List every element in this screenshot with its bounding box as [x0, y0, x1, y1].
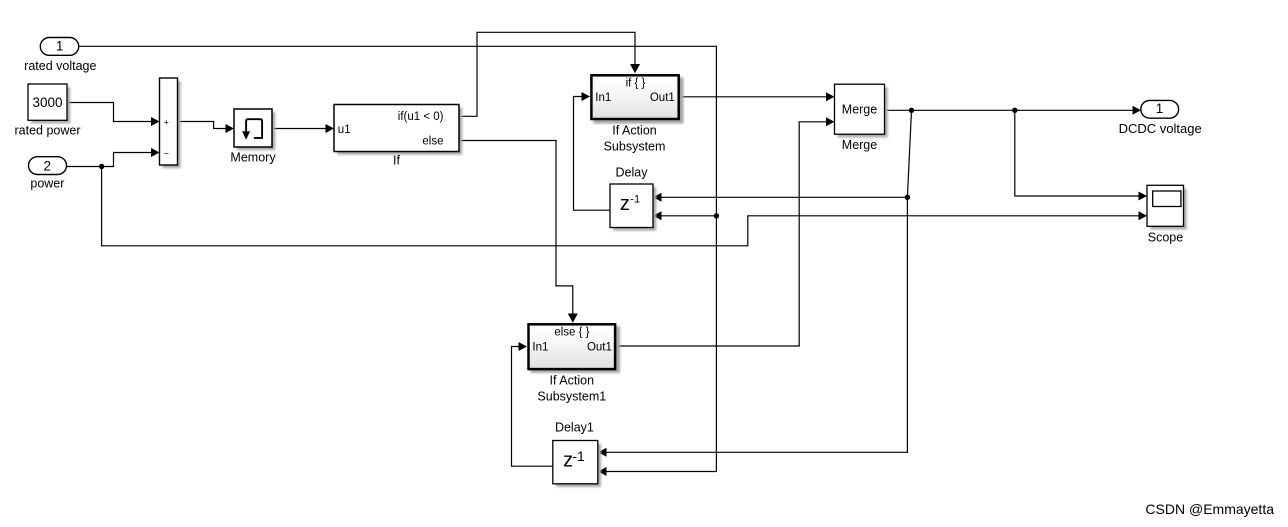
svg-text:Out1: Out1 [650, 92, 675, 104]
svg-text:Memory: Memory [230, 151, 276, 165]
svg-text:Out1: Out1 [587, 341, 612, 353]
svg-text:rated voltage: rated voltage [24, 59, 96, 73]
wire If output if(u1<0) to If Action Subsystem trigger [459, 32, 635, 116]
node junction merge output first [909, 108, 914, 113]
wire arrowhead into Delay1 in1 [598, 448, 607, 457]
node junction on rated-voltage line at Delay in2 branch [714, 213, 719, 218]
wire arrowhead into If u1 [326, 124, 335, 133]
svg-text:1: 1 [1156, 101, 1164, 116]
inport 1 rated voltage [24, 38, 96, 73]
svg-text:else: else [422, 136, 443, 148]
svg-text:If: If [393, 154, 400, 168]
if action subsystem1 [529, 324, 621, 403]
svg-text:If Action: If Action [612, 124, 657, 138]
svg-text:-1: -1 [630, 193, 640, 205]
constant block 3000 rated power [14, 84, 80, 137]
svg-text:If Action: If Action [550, 374, 595, 388]
wire rated voltage to Delay1 in2 (top long run, vertical x716) [79, 46, 717, 471]
wire power to Sum minus input [66, 153, 153, 167]
merge block [835, 84, 888, 152]
delay block [610, 165, 656, 230]
sum block [160, 78, 181, 168]
wire Sum output to Memory [178, 122, 228, 129]
svg-text:rated power: rated power [14, 123, 80, 137]
scope block [1147, 185, 1187, 244]
svg-text:In1: In1 [532, 341, 548, 353]
wire branch to Delay in2 [659, 215, 716, 217]
wire arrowhead into Delay1 in2 [598, 467, 607, 476]
wire If Action Subsystem1 Out1 to Merge in2 [617, 122, 829, 346]
svg-text:Merge: Merge [842, 103, 877, 117]
svg-text:else { }: else { } [554, 326, 589, 338]
wire arrowhead into If Action Subsystem top [630, 64, 640, 73]
memory block [230, 109, 276, 165]
svg-text:z: z [620, 193, 630, 215]
wire arrowhead into Delay in1 [653, 193, 662, 202]
wire arrowhead into If Action Subsystem1 top [568, 314, 578, 323]
wire arrowhead into Scope in1 [1139, 192, 1148, 201]
wire arrowhead into Sum plus [151, 117, 160, 126]
svg-text:Scope: Scope [1148, 231, 1183, 245]
wire merge branch down to Scope in1 [1015, 110, 1141, 196]
wire power branch to Scope in2 [102, 167, 1141, 246]
svg-text:Delay1: Delay1 [555, 420, 594, 434]
wire If output else to If Action Subsystem1 trigger [459, 141, 573, 315]
wire arrowhead into Memory [226, 124, 235, 133]
node junction on power line [99, 164, 104, 169]
wire Merge output to DCDC voltage outport [885, 109, 1135, 111]
svg-text:Subsystem: Subsystem [604, 140, 666, 154]
wire If Action Subsystem Out1 to Merge in1 [680, 96, 828, 98]
svg-text:Merge: Merge [842, 138, 877, 152]
outport 1 DCDC voltage [1119, 100, 1202, 136]
wire constant 3000 to Sum plus input [67, 103, 153, 122]
wire arrowhead into Delay in2 [653, 211, 662, 220]
delay1 block [553, 420, 601, 487]
inport 2 power [29, 157, 67, 191]
wire branch to Delay in1 [659, 196, 907, 198]
wire arrowhead into In1 of If Action Subsystem [582, 92, 591, 101]
svg-text:if(u1 < 0): if(u1 < 0) [398, 111, 444, 123]
svg-text:if { }: if { } [626, 77, 646, 89]
svg-text:1: 1 [56, 39, 64, 54]
wire arrowhead into Sum minus [151, 148, 160, 157]
wire Delay output to If Action Subsystem In1 [574, 97, 611, 211]
svg-text:+: + [164, 118, 169, 128]
svg-text:In1: In1 [595, 92, 611, 104]
if block [334, 105, 462, 168]
svg-text:−: − [164, 149, 169, 159]
if action subsystem [591, 75, 683, 153]
svg-text:power: power [30, 176, 64, 190]
wire Memory output to If u1 [272, 128, 328, 130]
svg-text:Subsystem1: Subsystem1 [537, 390, 606, 404]
svg-text:2: 2 [44, 159, 52, 174]
svg-text:u1: u1 [338, 124, 351, 136]
svg-text:DCDC voltage: DCDC voltage [1119, 121, 1202, 136]
wire arrowhead into In1 of If Action Subsystem1 [519, 342, 528, 351]
svg-text:-1: -1 [572, 448, 585, 464]
wire arrowhead into Scope in2 [1139, 211, 1148, 220]
wire arrowhead into outport [1133, 106, 1142, 115]
node junction at Delay in1 branch [905, 195, 910, 200]
wire arrowhead into Merge in2 [826, 117, 835, 126]
wire Delay1 output to If Action Subsystem1 In1 [512, 347, 554, 467]
node junction merge output second [1012, 108, 1017, 113]
wire arrowhead into Merge in1 [826, 92, 835, 101]
svg-text:3000: 3000 [32, 95, 62, 110]
wire merge branch down to Delay in1 and Delay1 in1 [604, 110, 912, 452]
svg-text:CSDN @Emmayetta: CSDN @Emmayetta [1145, 501, 1274, 517]
svg-text:Delay: Delay [616, 165, 649, 179]
